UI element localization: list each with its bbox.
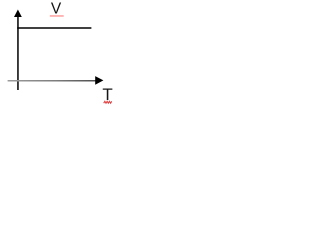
T label spell-check squiggle [104, 101, 112, 103]
vertical axis arrowhead [14, 10, 22, 18]
V label underline [50, 15, 64, 17]
vertical axis (V axis) [17, 16, 19, 91]
data line (constant value) [17, 27, 91, 29]
svg-text:V: V [51, 0, 62, 17]
horizontal axis arrowhead [95, 76, 103, 85]
horizontal axis (T axis) [8, 80, 97, 82]
